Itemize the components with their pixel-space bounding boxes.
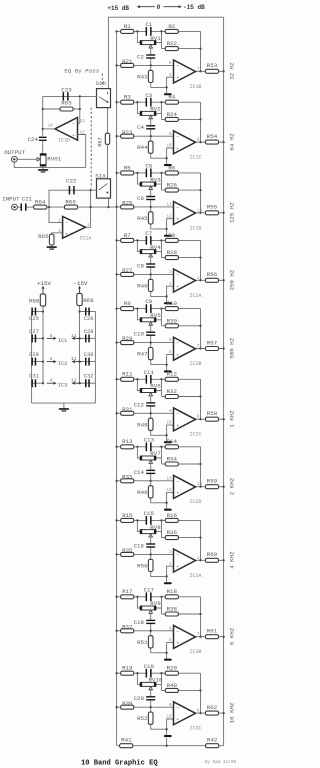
- svg-text:R66: R66: [65, 198, 76, 205]
- wire band 9 R51 bottom to non-inverting input: [151, 643, 174, 653]
- svg-text:RV7: RV7: [150, 450, 161, 457]
- resistor R23: [121, 134, 134, 138]
- wire band 1 top rail: [117, 30, 146, 32]
- wire band 2 riser to R24: [161, 113, 163, 119]
- svg-text:+: +: [176, 492, 179, 497]
- svg-text:INPUT: INPUT: [2, 195, 20, 202]
- svg-text:R32: R32: [167, 388, 178, 395]
- wiper arrow RV9: [149, 610, 153, 613]
- svg-text:C31: C31: [29, 374, 39, 380]
- svg-text:+15 dB: +15 dB: [107, 5, 129, 12]
- svg-text:R38: R38: [167, 606, 178, 613]
- svg-text:R63: R63: [61, 100, 72, 107]
- svg-text:C20: C20: [134, 695, 145, 702]
- wire band 8 ground stub: [166, 576, 168, 582]
- svg-text:125 HZ: 125 HZ: [229, 202, 236, 223]
- resistor R66: [64, 205, 77, 209]
- svg-text:C25: C25: [29, 316, 39, 322]
- wire band 1 output line: [196, 70, 224, 72]
- svg-text:R24: R24: [167, 111, 178, 118]
- svg-text:RV1: RV1: [150, 35, 161, 42]
- svg-text:C18: C18: [134, 619, 145, 626]
- wire band 4 R46 branch: [150, 274, 152, 280]
- svg-text:C28: C28: [84, 329, 94, 335]
- wire band 2 ground stub: [166, 158, 168, 164]
- wire supply row C25 C26: [32, 311, 43, 313]
- op-amp IC3C: [174, 702, 196, 725]
- resistor R69: [77, 293, 82, 305]
- svg-text:C22: C22: [66, 178, 77, 185]
- wire band 8 pot left leg: [137, 520, 140, 531]
- svg-text:R53: R53: [207, 62, 218, 69]
- wire band 6 riser to R32: [161, 391, 163, 397]
- wire band 6 ground stub: [166, 435, 168, 441]
- potentiometer RV6: [140, 389, 156, 393]
- junction dots band 4: [115, 239, 117, 241]
- potentiometer RV4: [140, 250, 156, 254]
- wire band 10 pot right leg: [156, 673, 162, 684]
- wire band 4 top rail: [117, 239, 146, 241]
- svg-text:−: −: [176, 706, 179, 711]
- wire band 7 R49 branch: [150, 481, 152, 487]
- wire band 6 pot right leg: [156, 379, 162, 390]
- ground band 10: [164, 735, 172, 737]
- svg-text:4 KHZ: 4 KHZ: [229, 551, 236, 569]
- svg-text:R36: R36: [167, 529, 178, 536]
- svg-text:R17: R17: [122, 588, 133, 595]
- ground band 6: [164, 441, 172, 443]
- svg-text:IC3A: IC3A: [189, 573, 201, 579]
- potentiometer RV10: [140, 682, 156, 686]
- capacitor C6: [146, 196, 155, 197]
- svg-text:R42: R42: [207, 736, 218, 743]
- svg-text:2 KHZ: 2 KHZ: [229, 477, 236, 495]
- svg-text:R61: R61: [207, 628, 218, 635]
- resistor R2: [165, 29, 178, 33]
- wire band 2 pot left leg: [137, 102, 140, 113]
- svg-text:R12: R12: [167, 371, 178, 378]
- svg-text:IC3B: IC3B: [189, 649, 201, 655]
- svg-text:C17: C17: [144, 586, 155, 593]
- wire band 2 wiper to C4: [150, 118, 152, 125]
- wire band 4 feedback drop: [200, 240, 202, 280]
- capacitor C15: [146, 516, 148, 525]
- svg-text:R41: R41: [121, 736, 132, 743]
- svg-text:12: 12: [166, 215, 172, 219]
- resistor R38: [165, 612, 178, 616]
- svg-text:+: +: [65, 232, 68, 237]
- resistor R51: [148, 636, 153, 648]
- wire band 9 top rail: [117, 596, 146, 598]
- svg-text:IC1C: IC1C: [189, 155, 201, 161]
- wire band 4 lower rail: [117, 273, 174, 275]
- wire band 9 lower rail: [117, 630, 174, 632]
- svg-text:−: −: [176, 553, 179, 558]
- resistor R46: [148, 279, 153, 291]
- svg-text:C27: C27: [29, 329, 39, 335]
- wire non-inverting input riser IC3D: [78, 135, 86, 168]
- wiper arrow RV5: [149, 322, 153, 325]
- capacitor C32: [85, 379, 87, 387]
- svg-text:10: 10: [166, 422, 172, 426]
- resistor R28: [165, 256, 178, 260]
- svg-text:IC1: IC1: [58, 338, 67, 344]
- svg-text:−: −: [176, 480, 179, 485]
- wire RV01 to ground: [42, 166, 44, 169]
- svg-text:R43: R43: [137, 73, 148, 80]
- wire C24 to volume pot: [42, 140, 44, 153]
- svg-text:C13: C13: [144, 436, 155, 443]
- wire band 2 R44 branch: [150, 136, 152, 142]
- capacitor C19: [146, 669, 148, 678]
- wire band 9 output line: [196, 636, 224, 638]
- svg-text:RV2: RV2: [150, 106, 161, 113]
- junction dots bypass: [89, 189, 91, 191]
- wire band 1 pot left leg: [137, 31, 140, 42]
- svg-text:+: +: [176, 76, 179, 81]
- svg-text:RV5: RV5: [150, 312, 161, 319]
- capacitor C8: [146, 263, 155, 264]
- capacitor C29: [31, 358, 33, 366]
- svg-text:R54: R54: [207, 133, 218, 140]
- svg-text:R69: R69: [83, 297, 94, 304]
- op-amp IC2C: [174, 408, 196, 431]
- wire band 2 lower rail: [117, 135, 174, 137]
- svg-text:R45: R45: [137, 215, 148, 222]
- svg-text:R16: R16: [167, 512, 178, 519]
- wire band 2 output line: [196, 141, 224, 143]
- wire band10 ground to bottom line: [166, 738, 168, 746]
- junction dots band 9: [115, 596, 117, 598]
- wire band 1 C2 to rail: [150, 58, 152, 65]
- svg-text:10 Band Graphic EQ: 10 Band Graphic EQ: [81, 760, 158, 768]
- wire band 4 wiper to C8: [150, 257, 152, 264]
- wire bottom line: [117, 745, 224, 747]
- wire band 7 feedback drop: [200, 447, 202, 487]
- wire summing line to bus: [78, 206, 117, 208]
- wire band 10 top rail: [117, 672, 146, 674]
- svg-text:OUTPUT: OUTPUT: [4, 149, 25, 156]
- svg-text:12: 12: [80, 132, 86, 136]
- capacitor C14: [146, 470, 155, 471]
- wire band 5 wiper to C10: [150, 325, 152, 332]
- svg-text:C2: C2: [137, 53, 144, 60]
- svg-text:C1: C1: [145, 21, 152, 28]
- svg-text:R6: R6: [168, 164, 175, 171]
- wire band 5 riser to R30: [161, 320, 163, 326]
- svg-text:32 HZ: 32 HZ: [229, 62, 236, 80]
- arrow right cut: [163, 6, 180, 8]
- svg-text:+: +: [176, 424, 179, 429]
- wire band 9 wiper to C18: [150, 613, 152, 620]
- wire band 4 R46 bottom to non-inverting input: [151, 286, 174, 296]
- wire band 2 feedback drop: [200, 102, 202, 142]
- wire R67 to S1a: [107, 144, 109, 178]
- capacitor C2: [146, 54, 155, 55]
- wire band 5 lower rail: [117, 342, 174, 344]
- wire band 5 feedback drop: [200, 309, 202, 349]
- svg-text:IC3: IC3: [58, 383, 67, 389]
- svg-text:C14: C14: [134, 469, 145, 476]
- ground band 8: [164, 582, 172, 584]
- resistor R47: [148, 348, 153, 360]
- wire supply row C27 C28: [32, 337, 43, 339]
- wire band 1 R43 branch: [150, 65, 152, 71]
- wire S1a to summing line: [108, 198, 110, 207]
- resistor R44: [148, 141, 153, 153]
- wire band 9 pot left leg: [137, 597, 140, 608]
- svg-text:RV3: RV3: [150, 176, 161, 183]
- wire band 10 output line: [196, 712, 224, 714]
- wire band 6 C12 to rail: [150, 406, 152, 413]
- svg-text:12: 12: [166, 489, 172, 493]
- resistor R27: [121, 272, 134, 276]
- potentiometer RV1: [140, 41, 156, 45]
- svg-text:250 HZ: 250 HZ: [229, 269, 236, 290]
- resistor R9: [121, 307, 134, 311]
- resistor R21: [121, 63, 134, 67]
- wire band 2 top rail: [117, 101, 146, 103]
- svg-text:R10: R10: [167, 300, 178, 307]
- junction dots band 2: [115, 101, 117, 103]
- svg-text:by Sam 11/05: by Sam 11/05: [205, 760, 237, 765]
- svg-text:RV8: RV8: [150, 524, 161, 531]
- wire band 5 R47 bottom to non-inverting input: [151, 354, 174, 364]
- junction dots row C25: [42, 310, 44, 312]
- svg-text:R62: R62: [207, 704, 218, 711]
- wire right summing bus: [223, 17, 225, 746]
- resistor R54: [205, 140, 218, 144]
- wire band 3 feedback drop: [200, 173, 202, 213]
- capacitor C23: [63, 92, 65, 101]
- wiper arrow RV6: [149, 393, 153, 396]
- svg-text:C21: C21: [22, 195, 33, 202]
- capacitor C1: [146, 27, 148, 36]
- svg-text:C3: C3: [145, 92, 152, 99]
- resistor R30: [165, 324, 178, 328]
- resistor R31: [121, 411, 134, 415]
- resistor R63: [60, 107, 73, 111]
- wire band 5 output line: [196, 348, 224, 350]
- wire -15V rail: [79, 306, 81, 384]
- wire band 10 R40 line: [162, 689, 201, 691]
- svg-text:R21: R21: [122, 58, 133, 65]
- wire band 8 R50 branch: [150, 554, 152, 560]
- svg-text:R8: R8: [168, 232, 175, 239]
- wire band 6 R48 bottom to non-inverting input: [151, 425, 174, 435]
- arrow +15V: [42, 287, 44, 294]
- wire band 10 lower rail: [117, 706, 174, 708]
- resistor R49: [148, 486, 153, 498]
- wire band 9 feedback drop: [200, 597, 202, 637]
- junction dots band 10: [115, 672, 117, 674]
- resistor R58: [205, 417, 218, 421]
- op-amp IC1D: [174, 202, 196, 225]
- wire band 1 riser to R22: [161, 43, 163, 49]
- svg-text:+: +: [176, 218, 179, 223]
- svg-text:R27: R27: [122, 267, 133, 274]
- wire band 3 R45 branch: [150, 207, 152, 213]
- ground input buffer: [47, 246, 57, 248]
- resistor R55: [205, 211, 218, 215]
- svg-text:C11: C11: [144, 369, 155, 376]
- svg-text:RV6: RV6: [150, 383, 161, 390]
- resistor R15: [121, 518, 134, 522]
- input connector: [12, 204, 18, 210]
- wiper arrow RV2: [149, 116, 153, 119]
- wire R63 feedback line: [43, 108, 80, 110]
- op-amp IC1A: [63, 216, 86, 238]
- op-amp IC1B: [174, 60, 196, 83]
- ground band 3: [164, 235, 172, 237]
- svg-text:R25: R25: [122, 200, 133, 207]
- resistor R7: [121, 238, 134, 242]
- capacitor C10: [146, 332, 155, 333]
- resistor R11: [121, 377, 134, 381]
- wire band 5 top rail: [117, 308, 146, 310]
- svg-text:R50: R50: [137, 562, 148, 569]
- op-amp IC2B: [174, 337, 196, 360]
- ground band 9: [164, 659, 172, 661]
- svg-text:C19: C19: [144, 663, 155, 670]
- wire top rail to bypass switch: [108, 17, 223, 88]
- svg-text:IC1A: IC1A: [79, 236, 91, 242]
- wire S1a common to buffer output: [91, 189, 97, 191]
- resistor R14: [165, 445, 178, 449]
- wire band 7 top rail: [117, 446, 146, 448]
- wire band 6 pot left leg: [137, 379, 140, 390]
- arrow -15V: [79, 287, 81, 293]
- wire band 2 R24 line: [162, 118, 201, 120]
- wire S1b common to feedback node: [43, 95, 97, 97]
- wiper arrow RV1: [149, 45, 153, 48]
- resistor R41: [120, 744, 133, 748]
- svg-text:R52: R52: [137, 715, 148, 722]
- wire band 8 R50 bottom to non-inverting input: [151, 566, 174, 576]
- junction dots band 5: [115, 307, 117, 309]
- junction dot bottom: [165, 745, 167, 747]
- wiper arrow RV4: [149, 254, 153, 257]
- svg-text:C9: C9: [145, 298, 152, 305]
- wire supply ground stub: [63, 403, 65, 408]
- wire band 3 pot left leg: [137, 173, 140, 184]
- wire C22 bypass loop: [49, 190, 91, 207]
- wire band 10 C20 to rail: [150, 700, 152, 707]
- resistor R17: [121, 595, 134, 599]
- capacitor C31: [31, 379, 33, 387]
- wire output node vertical: [42, 96, 44, 135]
- resistor R37: [121, 629, 134, 633]
- potentiometer RV3: [140, 182, 156, 186]
- dashed actuator link lower: [90, 108, 92, 189]
- svg-text:0: 0: [157, 4, 161, 11]
- svg-text:R2: R2: [168, 23, 175, 30]
- resistor R10: [165, 307, 178, 311]
- op-amp IC1C: [174, 131, 196, 154]
- resistor R48: [148, 418, 153, 430]
- capacitor C24: [39, 137, 47, 138]
- resistor R36: [165, 536, 178, 540]
- wire band 10 riser to R40: [161, 684, 163, 690]
- svg-text:+15V: +15V: [37, 280, 51, 287]
- ground band 2: [164, 164, 172, 166]
- wiper arrow RV8: [149, 534, 153, 537]
- arrow V+ IC2: [47, 361, 55, 363]
- resistor R68: [40, 294, 45, 306]
- svg-text:R13: R13: [122, 438, 133, 445]
- svg-text:R44: R44: [137, 144, 148, 151]
- resistor R40: [165, 688, 178, 692]
- svg-text:C16: C16: [134, 542, 145, 549]
- op-amp IC3A: [174, 549, 196, 572]
- svg-text:−: −: [176, 342, 179, 347]
- wire band 6 output line: [196, 418, 224, 420]
- resistor R8: [165, 238, 178, 242]
- wiper arrow RV3: [149, 186, 153, 189]
- wire band 6 feedback drop: [200, 379, 202, 419]
- svg-text:C29: C29: [29, 352, 39, 358]
- svg-text:16 KHZ: 16 KHZ: [229, 702, 236, 723]
- svg-text:IC1B: IC1B: [189, 84, 201, 90]
- resistor R26: [165, 188, 178, 192]
- arrow V+ IC1: [47, 337, 55, 339]
- wiper arrow RV7: [149, 460, 153, 463]
- resistor R42: [206, 744, 219, 748]
- svg-text:R15: R15: [122, 512, 133, 519]
- wire right return: [94, 312, 96, 404]
- svg-text:IC2D: IC2D: [189, 499, 201, 505]
- resistor R45: [148, 212, 153, 224]
- svg-text:C24: C24: [28, 136, 39, 143]
- wire band 9 R51 branch: [150, 631, 152, 637]
- op-amp IC3D: [55, 118, 78, 141]
- capacitor C25: [31, 308, 33, 316]
- wire band 8 top rail: [117, 519, 146, 521]
- svg-text:R59: R59: [207, 478, 218, 485]
- resistor R34: [165, 462, 178, 466]
- svg-text:−: −: [176, 135, 179, 140]
- svg-text:IC2A: IC2A: [189, 293, 201, 299]
- wire IC3D output: [43, 128, 55, 130]
- wire band 9 C18 to rail: [150, 624, 152, 631]
- svg-text:−: −: [176, 206, 179, 211]
- wire band 6 wiper to C12: [150, 396, 152, 403]
- svg-text:R46: R46: [137, 282, 148, 289]
- svg-text:R5: R5: [124, 164, 131, 171]
- wire band 3 pot right leg: [156, 173, 162, 184]
- wire band 10 feedback drop: [200, 673, 202, 713]
- arrow V- IC2: [73, 361, 81, 363]
- svg-text:C30: C30: [84, 352, 94, 358]
- svg-text:R30: R30: [167, 317, 178, 324]
- wiper arrow RV10: [149, 687, 153, 690]
- wire band 4 riser to R28: [161, 252, 163, 258]
- svg-text:−: −: [72, 122, 75, 127]
- svg-text:−: −: [176, 64, 179, 69]
- wire band 1 feedback drop: [200, 31, 202, 71]
- svg-text:R64: R64: [35, 198, 46, 205]
- junction dots row C31: [42, 382, 44, 384]
- svg-text:10: 10: [166, 145, 172, 149]
- wiper arrow RV01: [17, 158, 37, 160]
- svg-text:R29: R29: [122, 335, 133, 342]
- svg-text:R3: R3: [124, 94, 131, 101]
- svg-text:R40: R40: [167, 682, 178, 689]
- junction dot input: [48, 206, 50, 208]
- svg-text:R1: R1: [124, 23, 131, 30]
- svg-text:R31: R31: [122, 406, 133, 413]
- svg-text:−: −: [176, 273, 179, 278]
